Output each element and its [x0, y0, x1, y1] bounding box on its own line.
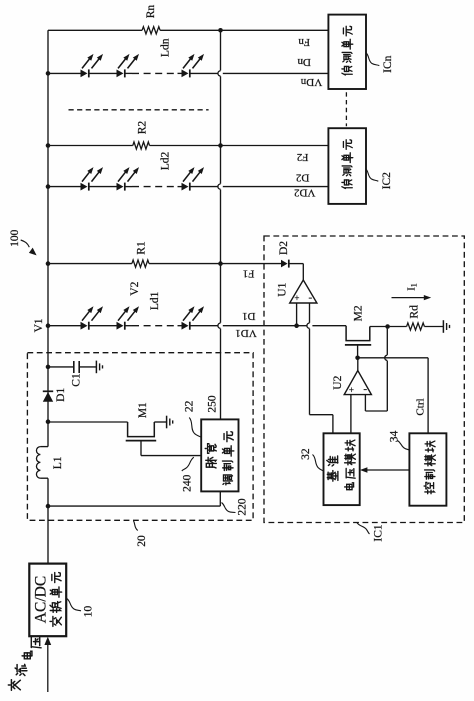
node junction Rn rail / feedback bus — [218, 28, 223, 33]
label pin VD1 — [235, 327, 256, 339]
svg-text:250: 250 — [206, 395, 218, 413]
svg-text:U2: U2 — [332, 375, 344, 389]
node junction V1 bus / Ld2 row — [46, 184, 51, 189]
detection unit box ICn — [328, 15, 366, 89]
label pin VD2 — [294, 187, 315, 199]
svg-text:ICn: ICn — [382, 55, 394, 73]
leader IC2 — [366, 169, 379, 182]
capacitor C1 — [74, 361, 79, 373]
label R2 — [136, 121, 148, 135]
wire C1 branch — [48, 366, 96, 368]
label Ldn — [160, 38, 172, 57]
svg-text:240: 240 — [182, 474, 194, 492]
label D1 — [55, 388, 67, 402]
resistor Rn — [142, 27, 160, 34]
svg-text:Fn: Fn — [298, 36, 310, 48]
wire M1 source to ground — [154, 421, 166, 423]
op-amp U1 — [290, 280, 317, 304]
wire gate node to Ctrl — [358, 357, 429, 359]
transistor M2 — [345, 326, 371, 358]
label I1 with arrow — [392, 283, 432, 300]
node junction V1 bus / Ld1 row — [46, 323, 51, 328]
svg-text:220: 220 — [236, 498, 248, 516]
node junction V1 bus / Ldn row — [46, 71, 51, 76]
inductor L1 — [36, 447, 48, 479]
resistor Rd wire — [390, 326, 443, 328]
wire M1 gate to PWM unit 240 — [141, 455, 201, 457]
wire V1 bus (left vertical supply rail) — [47, 30, 49, 563]
diode D2 — [281, 260, 289, 268]
svg-text:Dn: Dn — [297, 56, 311, 68]
label AC voltage (交流电压) — [8, 637, 41, 690]
wire U1 + input — [296, 303, 298, 326]
text PWM unit — [205, 432, 234, 485]
label C1 — [71, 373, 83, 387]
svg-text:34: 34 — [388, 431, 400, 443]
svg-text:Ld1: Ld1 — [149, 291, 161, 310]
wire Rn rail (top) — [48, 29, 328, 31]
svg-text:V1: V1 — [33, 318, 45, 332]
svg-text:U1: U1 — [276, 282, 288, 296]
svg-text:10: 10 — [82, 606, 94, 618]
label Ld1 — [149, 291, 161, 310]
label L1 — [52, 456, 64, 469]
ground at Rd — [443, 320, 449, 333]
svg-text:V2: V2 — [129, 281, 141, 295]
wire M1 drain branch — [48, 421, 128, 423]
text IC2 unit (侦测单元) — [342, 140, 353, 189]
label V2 — [129, 281, 141, 295]
label U2 — [332, 375, 344, 389]
svg-text:Ld2: Ld2 — [160, 151, 172, 170]
node junction V1-bus / Rn rail corner — [47, 29, 49, 31]
resistor R1 — [132, 260, 149, 267]
transistor M1 — [126, 422, 157, 456]
wire M2 source to Rd node — [370, 326, 388, 328]
resistor Rd — [407, 323, 425, 330]
leader ICn — [366, 53, 379, 66]
label pin VDn — [300, 76, 322, 88]
text AC/DC line — [33, 576, 50, 623]
wire D2 cathode to U1 output — [289, 264, 304, 280]
label pin Fn — [298, 36, 310, 48]
wire dashed ellipsis row (more LED strings) — [69, 109, 209, 111]
svg-text:D1: D1 — [242, 310, 255, 322]
label M1 — [137, 402, 149, 418]
svg-text:VDn: VDn — [300, 76, 322, 88]
label 10 with leader — [67, 599, 95, 618]
svg-text:R2: R2 — [136, 121, 148, 135]
resistor R2 — [133, 142, 150, 149]
label 34 with leader — [388, 431, 409, 451]
label IC2 — [381, 172, 393, 190]
svg-text:32: 32 — [300, 448, 312, 460]
wire R1 rail / F1 line — [48, 263, 281, 265]
label R1 — [135, 241, 147, 255]
label Ld2 — [160, 151, 172, 170]
arrow control module to reference module — [360, 467, 410, 472]
svg-text:L1: L1 — [52, 456, 64, 469]
wire dashed link ICn-IC2 — [345, 92, 347, 126]
text reference voltage module — [327, 440, 356, 490]
svg-text:20: 20 — [136, 535, 148, 547]
label 32 with leader — [300, 448, 323, 471]
detection unit box IC2 — [328, 128, 366, 204]
node junction V1 bus / R2 rail — [46, 143, 51, 148]
svg-text:-: - — [308, 292, 312, 304]
svg-text:Rn: Rn — [145, 5, 157, 19]
op-amp U2 — [344, 371, 371, 396]
node junction V1 bus / R1 rail — [46, 261, 51, 266]
text control module — [424, 441, 435, 494]
LED string Ldn — [48, 54, 328, 78]
svg-text:D2: D2 — [296, 172, 309, 184]
label U1 — [276, 282, 288, 296]
label pin D2 — [296, 172, 309, 184]
label pin D1 — [242, 310, 255, 322]
LED string Ld1 — [48, 306, 218, 330]
svg-text:+: + — [294, 293, 299, 303]
wire current sense feedback (source to U2-) — [365, 329, 387, 411]
wire Ctrl vertical — [427, 358, 429, 434]
wire feedback bus 220 (right vertical, ties resistor rails, to PWM unit) — [218, 30, 221, 419]
svg-text:Ctrl: Ctrl — [414, 398, 426, 415]
label pin F2 — [297, 151, 309, 163]
svg-text:F1: F1 — [243, 268, 255, 280]
label M2 — [352, 305, 364, 321]
node junction U1+ / VD1 row — [294, 323, 299, 328]
svg-text:VD1: VD1 — [235, 327, 256, 339]
label pin F1 — [243, 268, 255, 280]
control module box (控制模块) — [409, 433, 446, 505]
text converter unit (变换单元) — [50, 573, 62, 627]
wire U2 output to gate node — [357, 358, 359, 371]
label 220 with leader — [222, 498, 249, 516]
svg-text:M2: M2 — [352, 305, 364, 321]
label 100 with arrow — [9, 229, 37, 255]
node junction M2 gate — [355, 356, 360, 361]
node junction R1 rail / feedback bus — [218, 261, 223, 266]
label pin Dn — [297, 56, 311, 68]
svg-text:IC1: IC1 — [372, 524, 384, 542]
label D2 — [278, 241, 290, 255]
label V1 — [33, 318, 45, 332]
reference voltage module box (基准电压模块) — [324, 433, 360, 505]
PWM unit box (脉宽调制单元) — [201, 419, 238, 491]
wire R2 rail — [48, 145, 328, 147]
wire U2 + input to Vref — [350, 395, 352, 434]
wire Ld1 row into IC1 to M2 drain — [223, 325, 346, 327]
label 20 with leader — [134, 521, 149, 547]
svg-text:M1: M1 — [137, 402, 149, 418]
dashed box 20 (boost converter) — [27, 353, 253, 521]
AC/DC converter box — [29, 564, 66, 637]
svg-text:Rd: Rd — [409, 305, 421, 319]
svg-text:IC2: IC2 — [381, 172, 393, 190]
svg-text:Ldn: Ldn — [160, 38, 172, 57]
label 22 with leader — [183, 400, 201, 437]
svg-text:VD2: VD2 — [294, 187, 315, 199]
label ICn — [382, 55, 394, 73]
node junction M1 drain / L1 top — [46, 419, 51, 424]
svg-text:AC/DC: AC/DC — [33, 576, 50, 623]
wire U1 - input to Vref — [307, 303, 333, 433]
LED string Ld2 — [48, 167, 328, 191]
label Ctrl — [414, 398, 426, 415]
svg-text:100: 100 — [9, 229, 21, 247]
label Rd — [409, 305, 421, 319]
node junction L1 bottom — [46, 504, 51, 509]
svg-text:22: 22 — [183, 400, 195, 412]
svg-text:D1: D1 — [55, 388, 67, 402]
ground at C1 — [96, 361, 102, 374]
label Rn — [145, 5, 157, 19]
dashed box IC1 — [264, 236, 464, 523]
label IC1 with leader — [357, 523, 384, 542]
svg-text:R1: R1 — [135, 241, 147, 255]
label 250 — [206, 395, 218, 413]
svg-text:+: + — [349, 385, 354, 395]
ground at M1 — [167, 416, 173, 429]
text ICn unit (侦测单元) — [342, 26, 353, 75]
node junction C1 tap — [46, 365, 51, 370]
diode D1 (boost) — [43, 391, 53, 402]
wire AC input with arrow — [44, 637, 51, 692]
label 240 with leader — [182, 457, 194, 492]
wire L1 bottom to PWM unit 220 — [48, 492, 220, 506]
svg-text:-: - — [363, 383, 367, 395]
node junction R2 rail / feedback bus — [218, 143, 223, 148]
svg-text:F2: F2 — [297, 151, 309, 163]
node junction M2 source / Rd — [385, 324, 390, 329]
svg-text:D2: D2 — [278, 241, 290, 255]
svg-text:C1: C1 — [71, 373, 83, 387]
